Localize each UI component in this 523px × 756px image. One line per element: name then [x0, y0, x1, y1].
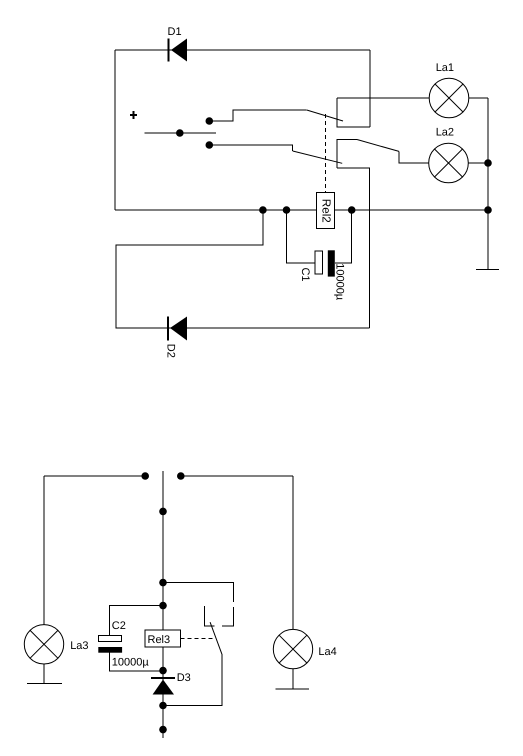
- svg-text:10000µ: 10000µ: [333, 263, 345, 301]
- ground La3: [27, 683, 62, 685]
- svg-text:D1: D1: [168, 26, 182, 38]
- svg-text:D3: D3: [177, 672, 191, 684]
- wire right rail bottom: [292, 476, 294, 629]
- junction dot bus B: [283, 206, 291, 214]
- node + (battery plus label): [130, 111, 137, 119]
- relay contact arm 1: [307, 110, 343, 121]
- svg-text:10000µ: 10000µ: [112, 657, 150, 669]
- lamp La3: [24, 625, 88, 664]
- svg-text:C1: C1: [299, 267, 311, 281]
- wire contact3 NC stub: [204, 606, 214, 626]
- svg-text:La3: La3: [70, 640, 88, 652]
- junction dot bus right rail: [484, 206, 492, 214]
- relay coil Rel3: [145, 630, 215, 647]
- wire top rail y=50: [115, 49, 370, 51]
- relay coil Rel2: [317, 114, 335, 229]
- wire center rail: [162, 471, 164, 738]
- lamp La2: [429, 127, 469, 183]
- wire to contact3: [163, 583, 234, 602]
- junction dot center 5: [159, 702, 167, 710]
- diode D2: [165, 317, 188, 358]
- svg-text:La4: La4: [318, 646, 336, 658]
- wire to La1: [337, 97, 429, 99]
- junction dot right: [177, 472, 185, 480]
- switch S1 lever: [145, 132, 216, 134]
- wire contact2 lower throw down: [337, 168, 370, 328]
- svg-text:La1: La1: [436, 62, 454, 74]
- wire La1 to right rail: [469, 97, 488, 99]
- junction dot center 1: [159, 508, 167, 516]
- wire contact2 throw slope: [357, 140, 399, 152]
- relay contact arm 2: [293, 151, 343, 163]
- junction dot lever: [176, 129, 184, 137]
- capacitor C2: [98, 606, 163, 671]
- junction dot lower contact: [206, 141, 214, 149]
- ground right rail: [476, 269, 499, 271]
- junction dot upper contact: [206, 117, 214, 125]
- svg-text:C2: C2: [112, 620, 126, 632]
- relay contact 2 fixed terminal: [337, 140, 357, 169]
- wire contact2 throw to La2: [399, 151, 429, 163]
- diode D1: [168, 26, 188, 62]
- svg-text:Rel2: Rel2: [320, 199, 333, 223]
- wire left rail: [114, 50, 116, 210]
- relay contact 1 fixed terminal: [337, 98, 370, 127]
- wire contact3 fixed lower: [222, 607, 233, 626]
- junction dot bus C: [348, 206, 356, 214]
- junction dot La2/right rail: [484, 159, 492, 167]
- wire arm3 down: [163, 655, 222, 706]
- junction dot center 6: [159, 726, 167, 734]
- wire lower contact feed: [209, 145, 292, 151]
- relay contact arm 3: [210, 622, 222, 655]
- wire left rail bottom: [43, 476, 45, 625]
- lamp La4: [273, 629, 336, 668]
- wire La2 to right rail: [468, 162, 488, 164]
- svg-text:La2: La2: [436, 127, 454, 139]
- wire outer right rail: [369, 50, 371, 127]
- svg-text:D2: D2: [165, 344, 177, 358]
- junction dot center 3: [159, 602, 167, 610]
- wire upper contact feed: [209, 110, 306, 121]
- wire La3 to ground: [43, 664, 45, 684]
- wire lower loop: [116, 210, 370, 328]
- diode D3: [151, 672, 191, 695]
- wire top right segment: [181, 475, 293, 477]
- wire top left segment: [44, 475, 145, 477]
- junction dot center 2: [159, 579, 167, 587]
- ground La4: [276, 688, 310, 690]
- lamp La1: [429, 62, 469, 118]
- junction dot center 4: [159, 667, 167, 675]
- wire bus y=210: [115, 209, 488, 211]
- svg-text:Rel3: Rel3: [148, 634, 171, 646]
- junction dot left: [141, 472, 149, 480]
- junction dot bus A: [259, 206, 267, 214]
- capacitor C1: [287, 210, 352, 301]
- wire La4 to ground: [292, 669, 294, 689]
- wire right rail: [487, 98, 489, 270]
